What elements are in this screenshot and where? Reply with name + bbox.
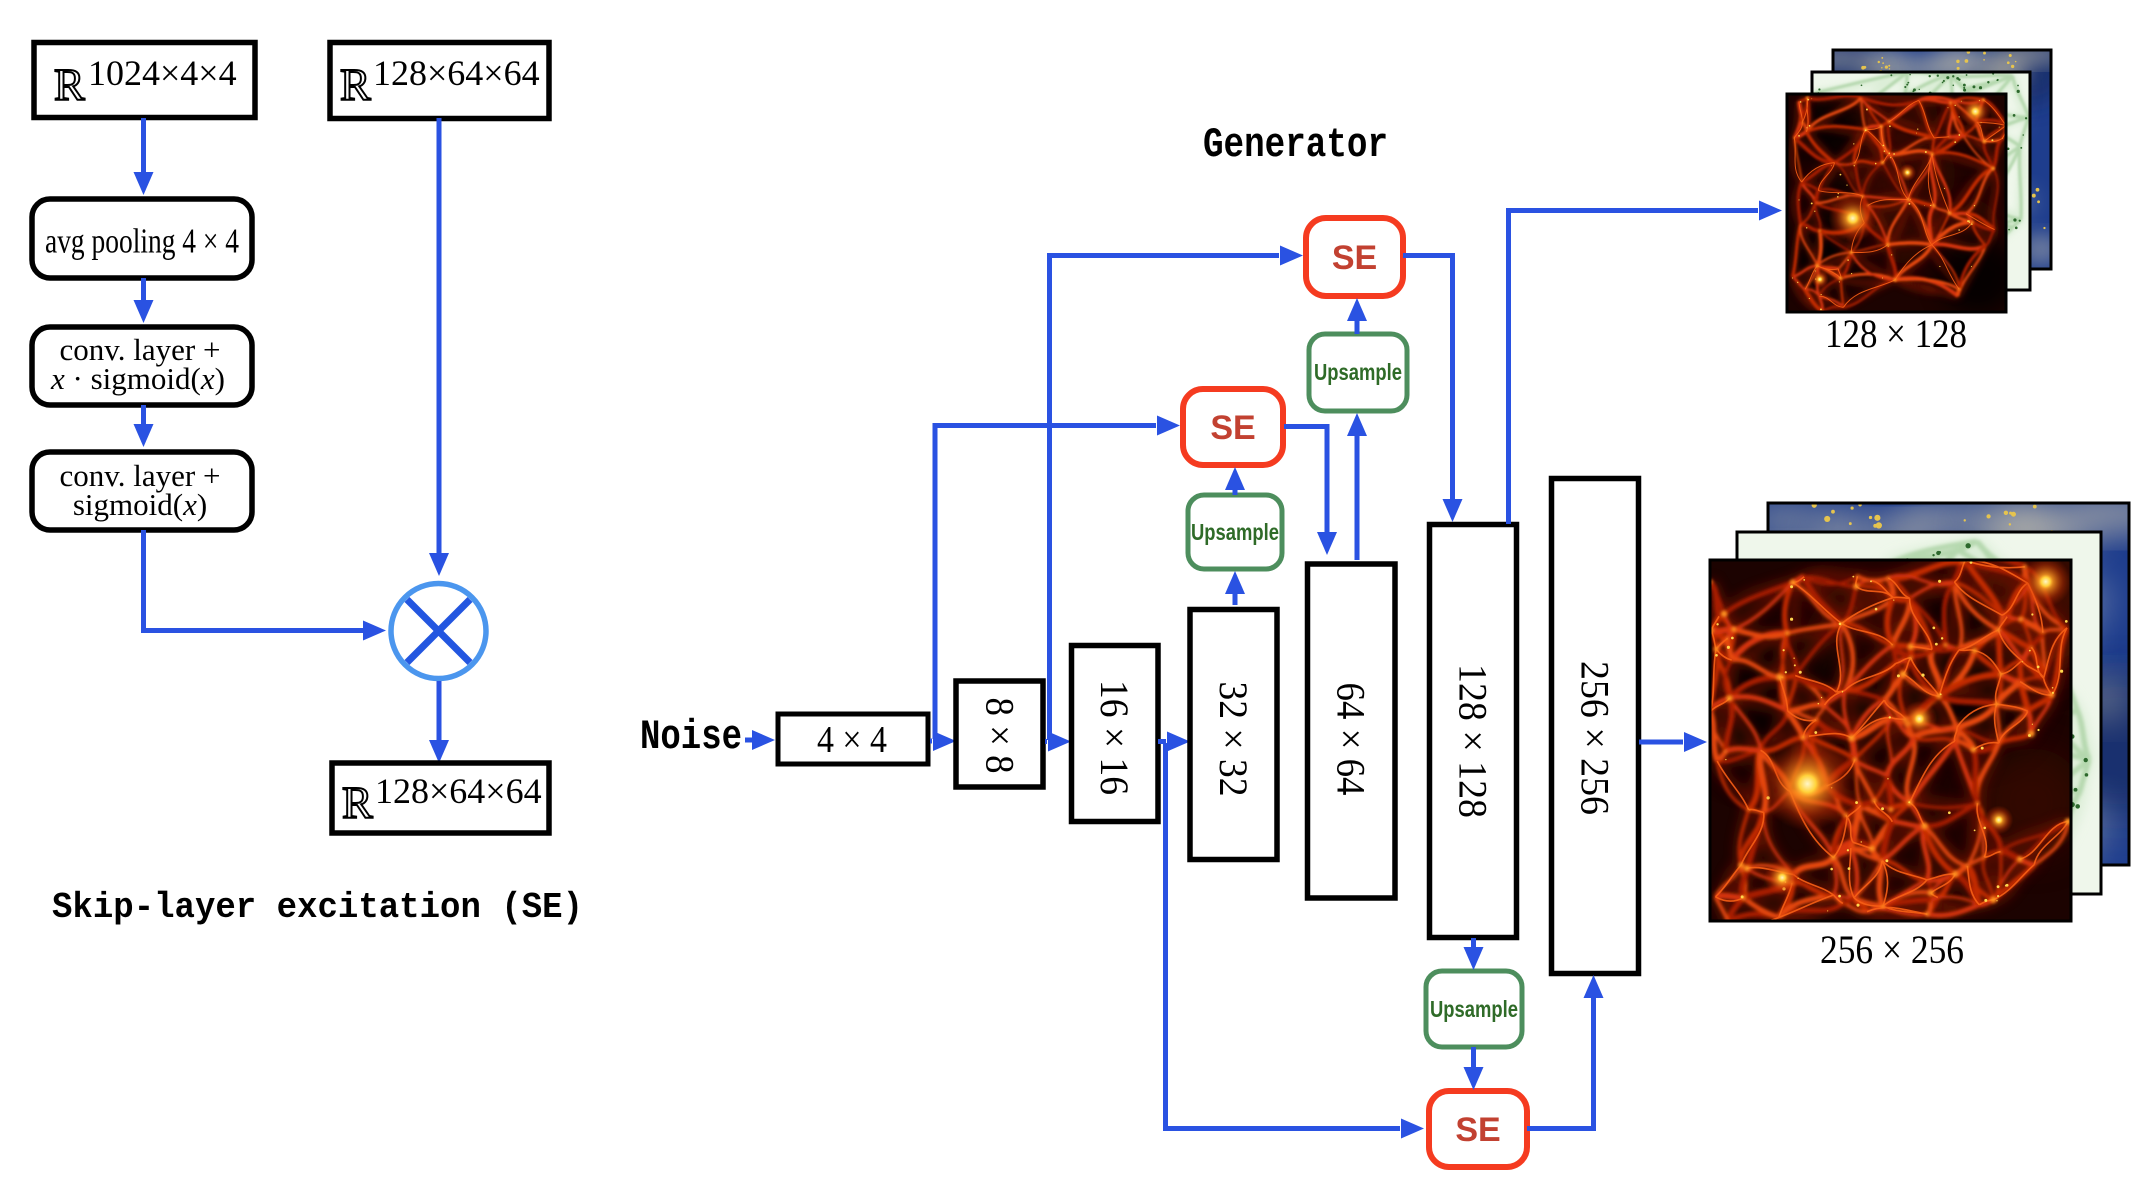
svg-text:SE: SE bbox=[1332, 239, 1377, 277]
256 output: front layer (red temperature map) bbox=[1692, 535, 2100, 928]
multiply (element-wise product) circle bbox=[391, 584, 486, 679]
conv layer + x*sigmoid(x) box bbox=[32, 327, 252, 405]
svg-text:32 × 32: 32 × 32 bbox=[1211, 682, 1256, 797]
wire SE1 to 128x128 top bbox=[1403, 256, 1463, 523]
Upsample block 2 bbox=[1309, 334, 1407, 411]
arrow Upsample3 to SE3 bbox=[1464, 1047, 1484, 1090]
avg pooling 4x4 box bbox=[32, 199, 252, 278]
32x32 feature box bbox=[1190, 610, 1277, 860]
arrow Upsample2 to SE1 bbox=[1347, 298, 1367, 334]
Upsample block 1 bbox=[1188, 495, 1282, 569]
arrow noise to 4x4 bbox=[745, 730, 775, 750]
SE block 1 (top) bbox=[1306, 218, 1403, 296]
skip wire from 8x8-16x16 junction to SE1 bbox=[1050, 246, 1304, 741]
svg-text:8 × 8: 8 × 8 bbox=[978, 698, 1023, 774]
arrow 128x128 bottom to Upsample3 bbox=[1464, 938, 1484, 970]
8x8 feature box bbox=[956, 681, 1043, 787]
skip wire from 4x4-8x8 junction to SE2 bbox=[935, 416, 1180, 740]
arrow Upsample1 to SE2 bbox=[1225, 467, 1245, 495]
128 output: back layer (blue dark-matter map) bbox=[1796, 26, 2069, 276]
svg-text:sigmoid(x): sigmoid(x) bbox=[73, 487, 207, 522]
256 output: middle layer (green gas map) bbox=[1730, 525, 2109, 901]
16x16 feature box bbox=[1072, 646, 1159, 822]
64x64 feature box bbox=[1308, 564, 1396, 898]
skip wire from 16x16-32x32 junction to SE3 bbox=[1166, 743, 1425, 1139]
svg-text:4 × 4: 4 × 4 bbox=[817, 719, 887, 761]
svg-text:256 × 256: 256 × 256 bbox=[1820, 927, 1964, 972]
svg-text:128×64×64: 128×64×64 bbox=[375, 771, 542, 811]
128x128 feature box bbox=[1430, 525, 1517, 938]
svg-text:SE: SE bbox=[1210, 409, 1255, 447]
256 output: back layer (blue dark-matter map) bbox=[1739, 473, 2138, 892]
svg-text:x · sigmoid(x): x · sigmoid(x) bbox=[50, 361, 225, 396]
SE block 3 (bottom) bbox=[1429, 1091, 1527, 1167]
wire 128x128 top to 128 output image bbox=[1509, 201, 1783, 525]
svg-text:Upsample: Upsample bbox=[1430, 996, 1518, 1022]
wire skip input down to multiply bbox=[429, 118, 449, 576]
arrow avg-pooling to conv1 bbox=[134, 278, 154, 323]
arrow 64x64 top to Upsample2 bbox=[1347, 413, 1367, 560]
wire SE3 to 256x256 bottom bbox=[1527, 975, 1604, 1129]
svg-text:64 × 64: 64 × 64 bbox=[1329, 683, 1374, 796]
Upsample block 3 bbox=[1426, 971, 1522, 1047]
svg-text:R: R bbox=[342, 777, 373, 828]
svg-text:Generator: Generator bbox=[1203, 121, 1388, 169]
arrow 32x32 top to Upsample1 bbox=[1225, 571, 1245, 605]
svg-text:16 × 16: 16 × 16 bbox=[1092, 680, 1137, 795]
128 output: front layer (red temperature map) bbox=[1783, 79, 2017, 317]
svg-text:1024×4×4: 1024×4×4 bbox=[88, 53, 237, 93]
arrow 4x4 to 8x8 bbox=[930, 731, 956, 751]
SE block 2 (middle) bbox=[1183, 389, 1283, 465]
4x4 feature box bbox=[778, 714, 928, 764]
svg-text:SE: SE bbox=[1455, 1111, 1500, 1149]
svg-text:avg pooling 4 × 4: avg pooling 4 × 4 bbox=[45, 222, 239, 261]
tensor box R^1024x4x4 bbox=[34, 43, 255, 118]
arrow 256x256 to 256 output image bbox=[1639, 732, 1707, 752]
arrow 16x16 to 32x32 bbox=[1158, 732, 1190, 752]
arrow 8x8 to 16x16 bbox=[1045, 732, 1071, 752]
svg-text:Noise: Noise bbox=[640, 713, 742, 761]
conv layer + sigmoid(x) box bbox=[32, 452, 252, 530]
svg-text:128 × 128: 128 × 128 bbox=[1451, 664, 1496, 818]
tensor box R^128x64x64 (skip input) bbox=[330, 43, 549, 119]
128 output: middle layer (green gas map) bbox=[1808, 68, 2035, 295]
svg-text:128 × 128: 128 × 128 bbox=[1825, 311, 1967, 356]
svg-text:Skip-layer excitation (SE): Skip-layer excitation (SE) bbox=[52, 887, 583, 928]
svg-text:Upsample: Upsample bbox=[1191, 519, 1279, 545]
arrow conv1 to conv2 bbox=[134, 405, 154, 447]
arrow R1024 to avg-pooling bbox=[134, 118, 154, 195]
output tensor box R^128x64x64 bbox=[332, 763, 549, 833]
svg-text:Upsample: Upsample bbox=[1314, 359, 1402, 385]
svg-text:256 × 256: 256 × 256 bbox=[1573, 661, 1618, 815]
svg-text:R: R bbox=[340, 59, 371, 110]
wire conv2 to multiply circle bbox=[144, 530, 387, 641]
256x256 feature box bbox=[1552, 479, 1639, 974]
svg-text:R: R bbox=[54, 59, 85, 110]
svg-text:128×64×64: 128×64×64 bbox=[373, 53, 540, 93]
wire SE2 to 64x64 top bbox=[1284, 427, 1337, 556]
arrow multiply to output tensor bbox=[429, 681, 449, 763]
